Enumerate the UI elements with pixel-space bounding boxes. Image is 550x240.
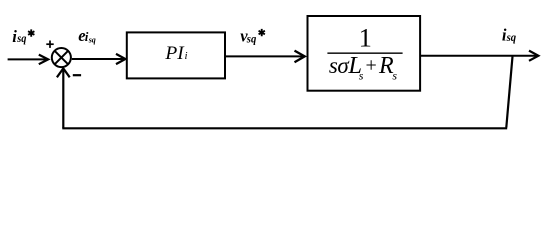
svg-text:PI: PI — [164, 43, 185, 64]
svg-text:✱: ✱ — [258, 28, 267, 39]
svg-text:sq: sq — [246, 33, 257, 45]
node minus sign — [73, 74, 81, 76]
svg-text:1: 1 — [359, 23, 372, 53]
svg-text:sq: sq — [506, 32, 517, 44]
svg-text:+: + — [366, 55, 377, 77]
wire feedback right vertical — [506, 57, 512, 128]
wire output arrow — [421, 51, 538, 61]
svg-text:s: s — [359, 68, 364, 82]
svg-text:i: i — [185, 50, 188, 62]
wire input arrow — [8, 55, 49, 65]
summing junction — [52, 48, 71, 67]
wire v arrow — [226, 51, 305, 63]
fraction bar — [327, 52, 402, 54]
svg-text:s: s — [392, 68, 397, 82]
wire error arrow — [72, 54, 126, 64]
svg-text:✱: ✱ — [27, 29, 36, 40]
node plus sign — [46, 41, 53, 48]
svg-text:sq: sq — [16, 33, 26, 45]
block PI controller — [127, 32, 225, 78]
block plant 1/(s*sigma*Ls+Rs) — [308, 16, 421, 91]
svg-text:sq: sq — [88, 35, 96, 44]
wire feedback left vertical with up arrow — [57, 68, 70, 128]
wire feedback bottom horizontal — [62, 127, 507, 129]
